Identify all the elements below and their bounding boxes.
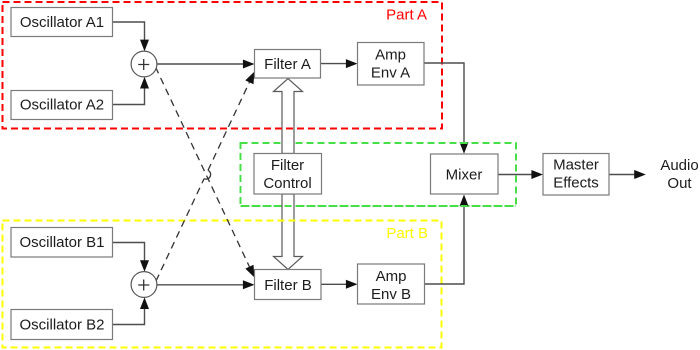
summing node B xyxy=(131,272,157,298)
box Oscillator A1 xyxy=(11,8,113,37)
wire Filter A to Amp Env A xyxy=(321,63,347,65)
dashed wire sum A to Filter B xyxy=(156,67,250,267)
wire Master Effects to Audio Out xyxy=(609,174,635,176)
arrowhead into sum B top xyxy=(140,260,149,272)
svg-text:Master: Master xyxy=(553,157,599,174)
svg-text:Audio: Audio xyxy=(660,157,698,174)
wire Amp Env B to Mixer xyxy=(425,206,465,285)
arrowhead into Amp Env B xyxy=(346,280,358,289)
group box Filter Control (green dashed) xyxy=(241,143,517,206)
block arrow to Filter A xyxy=(274,79,303,154)
box Filter A xyxy=(255,50,321,79)
arrowhead to Audio Out xyxy=(634,170,646,179)
summing node A xyxy=(131,51,157,77)
group box Part A (red dashed) xyxy=(3,2,443,129)
svg-text:Oscillator A1: Oscillator A1 xyxy=(20,14,104,31)
svg-text:Amp: Amp xyxy=(375,47,406,64)
dashed wire sum B to Filter A xyxy=(156,82,249,281)
wire Oscillator A2 to sum A xyxy=(113,89,145,105)
svg-text:Filter: Filter xyxy=(271,157,304,174)
wire Amp Env A to Mixer xyxy=(424,63,464,143)
label Audio Out xyxy=(660,157,698,192)
arrowhead into Mixer top xyxy=(460,142,469,154)
svg-text:Mixer: Mixer xyxy=(446,167,483,184)
arrowhead into Filter B xyxy=(243,280,255,289)
svg-text:Oscillator A2: Oscillator A2 xyxy=(20,97,104,114)
box Amp Env A xyxy=(358,43,425,86)
arrowhead into sum A top xyxy=(140,40,149,52)
arrowhead into sum A bottom xyxy=(140,77,149,89)
svg-text:Env A: Env A xyxy=(371,65,410,82)
block arrow to Filter B xyxy=(274,194,303,270)
svg-text:Part A: Part A xyxy=(386,7,427,24)
arrowhead into sum B bottom xyxy=(140,297,149,309)
svg-text:Part B: Part B xyxy=(386,225,428,242)
arrowhead into Master Effects xyxy=(531,170,543,179)
svg-text:Out: Out xyxy=(667,175,692,192)
wire sum B to Filter B xyxy=(157,284,244,286)
box Amp Env B xyxy=(358,264,425,304)
group box Part B (yellow dashed) xyxy=(3,221,442,348)
wire hop at crossing xyxy=(204,170,211,179)
arrowhead into Filter A (dashed wire) xyxy=(245,72,254,85)
wire Filter B to Amp Env B xyxy=(321,283,347,285)
svg-text:Control: Control xyxy=(263,175,311,192)
wire Mixer to Master Effects xyxy=(498,174,532,176)
box Master Effects xyxy=(543,154,609,196)
wire sum A to Filter A xyxy=(157,63,244,65)
box Filter Control xyxy=(254,154,322,195)
green box top edge dash over mixer arrow xyxy=(460,142,468,144)
box Oscillator B2 xyxy=(11,310,113,340)
box Oscillator A2 xyxy=(11,91,113,120)
svg-text:Amp: Amp xyxy=(376,268,407,285)
box Mixer xyxy=(431,154,499,194)
box Oscillator B1 xyxy=(11,228,113,258)
svg-text:Oscillator B2: Oscillator B2 xyxy=(19,317,104,334)
green box bottom edge over block arrow shaft xyxy=(241,205,517,207)
wire Oscillator A1 to sum A xyxy=(113,22,145,40)
svg-text:Env B: Env B xyxy=(371,286,411,303)
arrowhead into Amp Env A xyxy=(346,59,358,68)
svg-text:Effects: Effects xyxy=(553,175,599,192)
svg-text:Filter A: Filter A xyxy=(264,56,311,73)
wire Oscillator B1 to sum B xyxy=(113,243,145,262)
arrowhead into Filter A xyxy=(243,60,255,69)
arrowhead into Mixer bottom xyxy=(460,195,469,207)
svg-text:Filter B: Filter B xyxy=(264,277,312,294)
svg-text:Oscillator B1: Oscillator B1 xyxy=(19,234,104,251)
wire Oscillator B2 to sum B xyxy=(113,309,145,325)
arrowhead into Filter B (dashed wire) xyxy=(245,265,254,278)
box Filter B xyxy=(255,270,322,300)
